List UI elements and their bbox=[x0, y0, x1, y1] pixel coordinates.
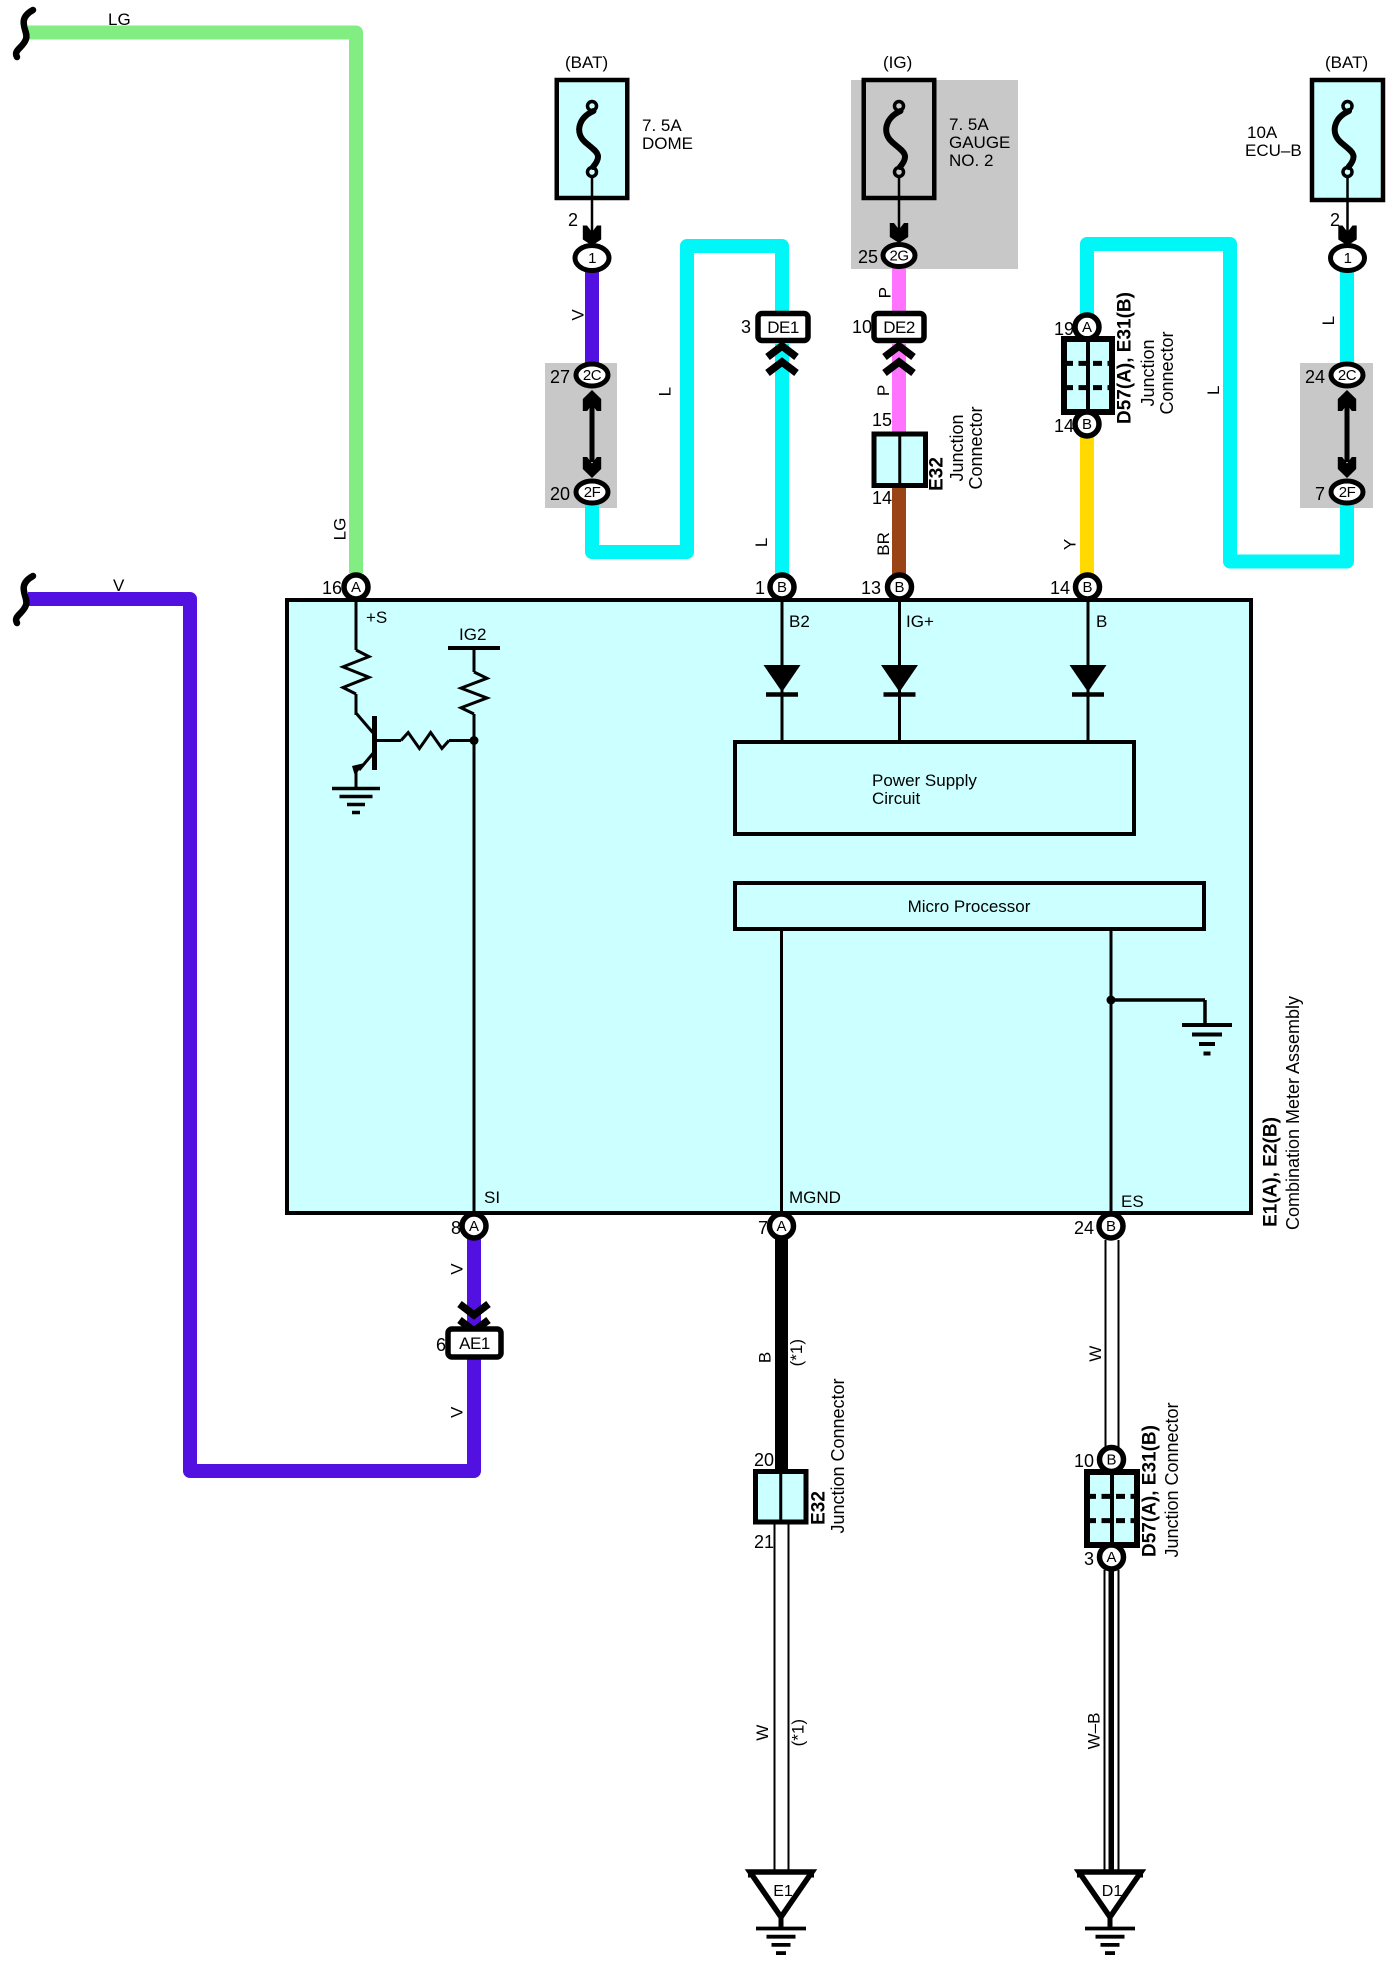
svg-text:Combination Meter Assembly: Combination Meter Assembly bbox=[1283, 996, 1303, 1230]
svg-text:2: 2 bbox=[568, 210, 578, 230]
svg-text:DOME: DOME bbox=[642, 134, 693, 153]
svg-text:7. 5A: 7. 5A bbox=[949, 115, 989, 134]
svg-text:SI: SI bbox=[484, 1188, 500, 1207]
svg-text:2G: 2G bbox=[889, 248, 908, 265]
svg-text:14: 14 bbox=[872, 488, 892, 508]
svg-text:B: B bbox=[1106, 1452, 1116, 1469]
svg-text:A: A bbox=[776, 1218, 786, 1235]
svg-text:IG2: IG2 bbox=[459, 625, 486, 644]
svg-text:Micro Processor: Micro Processor bbox=[908, 897, 1031, 916]
svg-text:B: B bbox=[1106, 1218, 1116, 1235]
svg-text:AE1: AE1 bbox=[459, 1334, 490, 1353]
svg-text:20: 20 bbox=[550, 484, 570, 504]
svg-text:(IG): (IG) bbox=[883, 53, 912, 72]
svg-text:D57(A), E31(B): D57(A), E31(B) bbox=[1140, 1425, 1161, 1557]
svg-text:D57(A), E31(B): D57(A), E31(B) bbox=[1115, 292, 1136, 424]
svg-text:V: V bbox=[448, 1263, 467, 1275]
svg-text:L: L bbox=[656, 387, 675, 396]
svg-text:GAUGE: GAUGE bbox=[949, 133, 1010, 152]
svg-text:2C: 2C bbox=[1338, 367, 1357, 384]
svg-text:16: 16 bbox=[322, 578, 342, 598]
svg-text:25: 25 bbox=[858, 247, 878, 267]
svg-text:A: A bbox=[351, 579, 361, 596]
svg-text:7: 7 bbox=[758, 1218, 768, 1238]
svg-text:IG+: IG+ bbox=[906, 612, 934, 631]
svg-text:L: L bbox=[752, 538, 771, 547]
svg-text:ES: ES bbox=[1121, 1192, 1144, 1211]
svg-text:V: V bbox=[448, 1406, 467, 1418]
svg-text:Junction: Junction bbox=[1138, 339, 1158, 406]
svg-text:Junction Connector: Junction Connector bbox=[1162, 1402, 1182, 1557]
svg-text:Circuit: Circuit bbox=[872, 789, 920, 808]
svg-text:3: 3 bbox=[741, 317, 751, 337]
svg-text:+S: +S bbox=[366, 608, 387, 627]
svg-text:ECU–B: ECU–B bbox=[1245, 141, 1302, 160]
svg-text:W: W bbox=[1086, 1346, 1105, 1362]
svg-text:L: L bbox=[1204, 386, 1223, 395]
svg-text:V: V bbox=[569, 309, 588, 321]
svg-text:20: 20 bbox=[754, 1450, 774, 1470]
svg-text:DE2: DE2 bbox=[883, 318, 915, 337]
svg-text:2C: 2C bbox=[583, 367, 602, 384]
svg-text:1: 1 bbox=[755, 578, 765, 598]
svg-text:E1: E1 bbox=[773, 1883, 793, 1900]
svg-text:B: B bbox=[1082, 579, 1092, 596]
svg-text:A: A bbox=[1082, 319, 1092, 336]
svg-text:8: 8 bbox=[451, 1218, 461, 1238]
svg-text:NO. 2: NO. 2 bbox=[949, 151, 993, 170]
svg-text:A: A bbox=[469, 1218, 479, 1235]
svg-text:MGND: MGND bbox=[789, 1188, 841, 1207]
svg-text:B: B bbox=[894, 579, 904, 596]
svg-text:(BAT): (BAT) bbox=[1325, 53, 1368, 72]
svg-text:L: L bbox=[1319, 316, 1338, 325]
svg-text:24: 24 bbox=[1305, 367, 1325, 387]
svg-text:13: 13 bbox=[861, 578, 881, 598]
svg-text:10: 10 bbox=[1074, 1451, 1094, 1471]
svg-text:E32: E32 bbox=[809, 1491, 830, 1525]
svg-text:10A: 10A bbox=[1247, 123, 1278, 142]
svg-text:21: 21 bbox=[754, 1532, 774, 1552]
svg-text:Connector: Connector bbox=[966, 406, 986, 489]
svg-text:E32: E32 bbox=[927, 457, 948, 491]
svg-text:B: B bbox=[756, 1352, 775, 1363]
svg-text:A: A bbox=[1106, 1549, 1116, 1566]
svg-text:7. 5A: 7. 5A bbox=[642, 116, 682, 135]
svg-text:Junction Connector: Junction Connector bbox=[828, 1378, 848, 1533]
svg-text:V: V bbox=[113, 576, 125, 595]
svg-text:1: 1 bbox=[588, 250, 596, 267]
svg-text:2F: 2F bbox=[1339, 484, 1356, 501]
svg-text:DE1: DE1 bbox=[767, 318, 799, 337]
svg-text:B2: B2 bbox=[789, 612, 810, 631]
svg-text:D1: D1 bbox=[1102, 1883, 1123, 1900]
svg-text:27: 27 bbox=[550, 367, 570, 387]
svg-text:Junction: Junction bbox=[947, 414, 967, 481]
svg-text:14: 14 bbox=[1054, 416, 1074, 436]
svg-text:24: 24 bbox=[1074, 1218, 1094, 1238]
svg-text:B: B bbox=[1082, 416, 1092, 433]
svg-text:6: 6 bbox=[436, 1335, 446, 1355]
svg-text:14: 14 bbox=[1050, 578, 1070, 598]
svg-text:15: 15 bbox=[872, 410, 892, 430]
svg-text:3: 3 bbox=[1084, 1549, 1094, 1569]
svg-text:(BAT): (BAT) bbox=[565, 53, 608, 72]
svg-text:Connector: Connector bbox=[1157, 331, 1177, 414]
svg-text:LG: LG bbox=[108, 10, 131, 29]
svg-text:10: 10 bbox=[852, 317, 872, 337]
svg-text:(*1): (*1) bbox=[787, 1339, 806, 1366]
svg-text:LG: LG bbox=[331, 518, 350, 541]
svg-text:B: B bbox=[777, 579, 787, 596]
svg-text:B: B bbox=[1096, 612, 1107, 631]
svg-text:P: P bbox=[874, 385, 893, 396]
svg-text:BR: BR bbox=[874, 532, 893, 556]
svg-text:2F: 2F bbox=[584, 484, 601, 501]
svg-text:19: 19 bbox=[1054, 319, 1074, 339]
svg-text:W–B: W–B bbox=[1085, 1713, 1104, 1750]
svg-text:1: 1 bbox=[1344, 250, 1352, 267]
svg-text:E1(A), E2(B): E1(A), E2(B) bbox=[1261, 1117, 1282, 1227]
svg-text:Y: Y bbox=[1061, 539, 1080, 550]
svg-text:(*1): (*1) bbox=[788, 1719, 807, 1746]
svg-text:W: W bbox=[753, 1725, 772, 1741]
svg-text:7: 7 bbox=[1315, 484, 1325, 504]
svg-text:P: P bbox=[876, 287, 895, 298]
svg-text:Power Supply: Power Supply bbox=[872, 771, 977, 790]
